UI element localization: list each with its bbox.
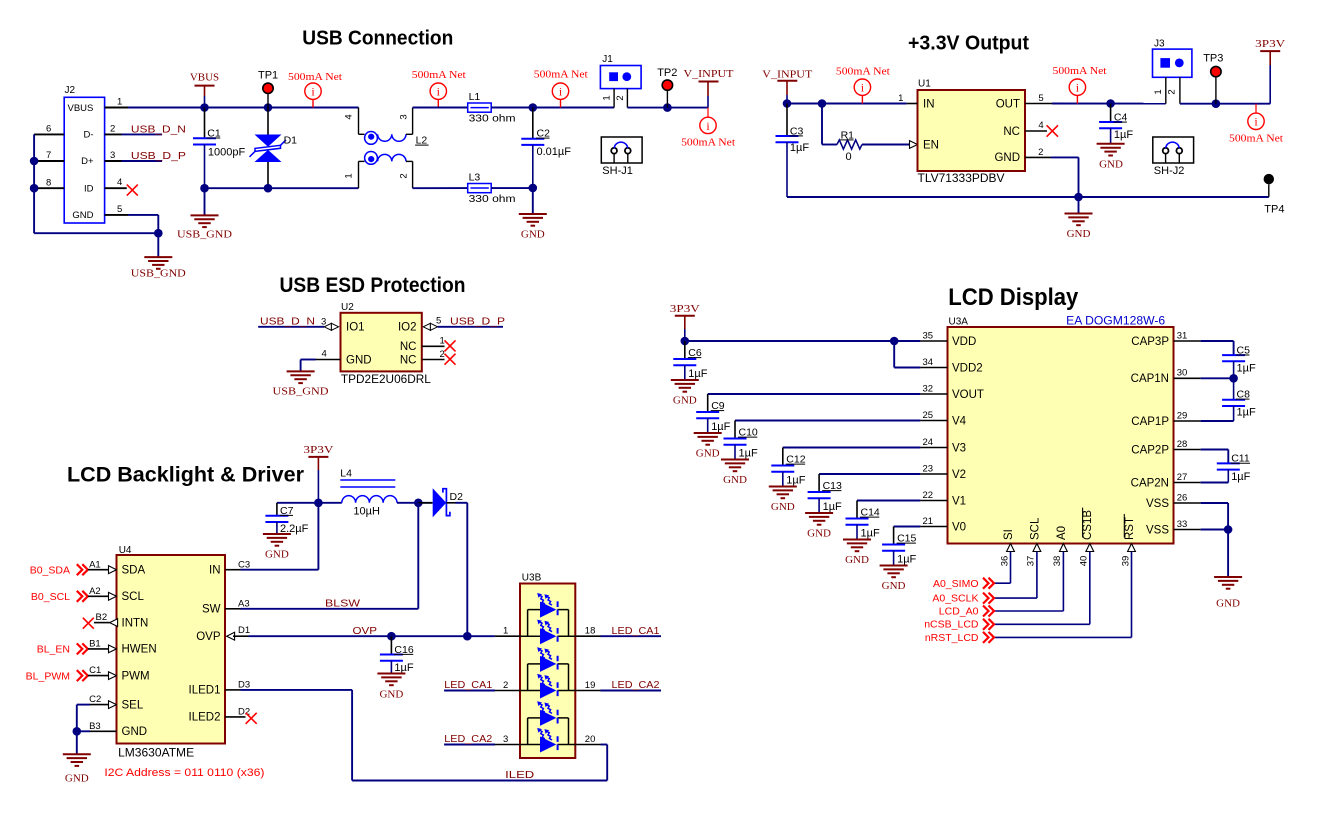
junction dot TP2 — [663, 103, 672, 112]
U4 pin D1 stub OVP — [227, 632, 235, 640]
U3A pin 21 V0 — [920, 526, 947, 528]
junction dot VBUS TP1 — [264, 103, 273, 112]
svg-text:GND: GND — [1067, 228, 1091, 240]
capacitor C11 — [1217, 462, 1240, 464]
header J3 — [1153, 49, 1192, 77]
capacitor C6 — [684, 341, 686, 359]
svg-text:J1: J1 — [602, 54, 613, 65]
svg-text:1µF: 1µF — [861, 528, 880, 540]
wire J1 pin2 to V_INPUT — [627, 107, 708, 109]
J2 pin 6 stub — [34, 133, 64, 135]
svg-text:5: 5 — [117, 204, 122, 215]
svg-text:IN: IN — [923, 99, 935, 111]
U3A pin 34 VDD2 — [920, 367, 947, 369]
svg-text:D3: D3 — [238, 680, 250, 691]
svg-text:VBUS: VBUS — [190, 72, 219, 84]
ground USB_GND at C1 — [204, 188, 206, 215]
LED D2 lower of group 1 — [540, 628, 556, 644]
svg-text:BL_PWM: BL_PWM — [26, 670, 70, 682]
svg-text:29: 29 — [1177, 410, 1188, 421]
svg-text:HWEN: HWEN — [122, 644, 157, 656]
svg-text:GND: GND — [723, 474, 747, 486]
schottky diode D2 — [418, 502, 432, 504]
svg-text:GND: GND — [1099, 159, 1123, 171]
ground GND at C15 — [880, 565, 908, 567]
wire CAP2N to C11 — [1201, 482, 1229, 484]
svg-text:1: 1 — [1153, 89, 1164, 94]
svg-text:SH-J1: SH-J1 — [602, 165, 633, 177]
wire ILED net — [241, 689, 353, 691]
ground GND at C12 — [769, 486, 797, 488]
svg-text:4: 4 — [117, 177, 122, 188]
test point TP2 — [666, 90, 668, 107]
capacitor C3 — [786, 104, 788, 137]
U4 pin B1 stub — [88, 648, 109, 650]
wire L4 to D2 — [397, 502, 432, 504]
svg-text:D-: D- — [83, 130, 93, 141]
svg-text:VDD2: VDD2 — [952, 362, 983, 374]
svg-text:4: 4 — [1038, 120, 1043, 131]
svg-text:BLSW: BLSW — [325, 597, 360, 609]
shunt SH-J1 — [601, 137, 642, 163]
svg-text:31: 31 — [1177, 330, 1188, 341]
ground GND at VSS — [1227, 530, 1229, 578]
svg-text:INTN: INTN — [122, 617, 149, 629]
U3A pin 29 CAP1P — [1174, 420, 1201, 422]
svg-text:RST: RST — [1124, 517, 1136, 540]
svg-text:2: 2 — [110, 124, 115, 135]
svg-text:1µF: 1µF — [394, 662, 413, 674]
net label USB_D_N wire — [122, 133, 163, 135]
svg-text:4: 4 — [322, 349, 327, 360]
svg-text:TP1: TP1 — [258, 70, 278, 82]
LCD module U3A — [948, 327, 1174, 544]
U4 pin C1 stub — [88, 675, 109, 677]
wire CAP3P to C5 — [1201, 340, 1234, 342]
svg-text:NC: NC — [400, 354, 417, 366]
J2 pin 4 stub no-connect — [105, 187, 127, 189]
wire J3 pin2 to 3P3V — [1180, 103, 1270, 105]
svg-text:D1: D1 — [284, 135, 298, 147]
svg-text:GND: GND — [265, 549, 289, 561]
svg-text:3P3V: 3P3V — [303, 444, 333, 456]
wire R1 branch down — [821, 104, 823, 145]
svg-text:TPD2E2U06DRL: TPD2E2U06DRL — [341, 374, 432, 386]
LED array U3B — [520, 584, 575, 759]
svg-text:USB_D_N: USB_D_N — [260, 315, 315, 327]
svg-text:ILED: ILED — [505, 769, 535, 781]
svg-text:1µF: 1µF — [823, 501, 842, 513]
wire CAP1N node — [1201, 377, 1234, 379]
svg-text:I2C Address = 011 0110 (x36): I2C Address = 011 0110 (x36) — [104, 767, 264, 779]
svg-text:U3A: U3A — [949, 316, 969, 327]
svg-text:CAP3P: CAP3P — [1131, 336, 1169, 348]
wire regulator ground rail — [787, 196, 1269, 198]
svg-text:LED_CA1: LED_CA1 — [612, 625, 660, 637]
net info 500mA Net before U1 — [854, 79, 870, 95]
test point TP1 — [267, 94, 269, 108]
svg-text:1000pF: 1000pF — [208, 147, 246, 159]
J2 pin 5 stub — [105, 214, 128, 216]
LED D6 lower of group 3 — [540, 737, 556, 753]
svg-text:3: 3 — [110, 150, 115, 161]
svg-text:3: 3 — [398, 114, 409, 119]
svg-text:VSS: VSS — [1146, 524, 1169, 536]
LED D3 upper of group 2 — [540, 656, 556, 672]
svg-text:A3: A3 — [238, 598, 250, 609]
svg-text:1µF: 1µF — [711, 421, 730, 433]
net info 500mA Net at V_INPUT — [707, 108, 709, 118]
svg-text:4: 4 — [344, 114, 355, 119]
U3A pin 25 V4 — [920, 420, 947, 422]
svg-text:A1: A1 — [89, 559, 101, 570]
svg-text:2: 2 — [440, 349, 445, 360]
wire L2 to L3 — [413, 187, 468, 189]
port nCSB_LCD — [994, 623, 1090, 625]
svg-text:33: 33 — [1177, 519, 1188, 530]
wire C13 to U3A — [819, 473, 920, 475]
svg-text:GND: GND — [845, 554, 869, 566]
wire C12 to U3A — [783, 447, 921, 449]
junction dot C2 bottom — [529, 184, 538, 193]
svg-text:1µF: 1µF — [739, 448, 758, 460]
connector J2 — [64, 97, 104, 223]
svg-text:L3: L3 — [469, 171, 481, 183]
svg-text:27: 27 — [1177, 472, 1188, 483]
wire VSS 26 down — [1201, 502, 1229, 504]
ground GND at C2 — [532, 188, 534, 214]
net info 500mA Net after L1 — [552, 83, 568, 99]
svg-text:38: 38 — [1052, 556, 1063, 567]
svg-text:500mA Net: 500mA Net — [534, 69, 588, 81]
svg-text:26: 26 — [1177, 492, 1188, 503]
U3A pin 22 V1 — [920, 500, 947, 502]
svg-text:GND: GND — [771, 501, 795, 513]
svg-text:2: 2 — [1038, 147, 1043, 158]
svg-text:V0: V0 — [952, 521, 966, 533]
svg-text:5: 5 — [1038, 93, 1043, 104]
net label USB_D_N wire at U2 — [258, 326, 324, 328]
junction dot 3P3V backlight — [314, 499, 323, 508]
svg-text:28: 28 — [1177, 439, 1188, 450]
svg-text:24: 24 — [923, 437, 934, 448]
svg-text:VSS: VSS — [1146, 498, 1169, 510]
svg-text:B1: B1 — [89, 639, 101, 650]
U2 IO1 pin diamond — [324, 323, 331, 330]
svg-text:C1: C1 — [89, 665, 101, 676]
svg-text:IO1: IO1 — [346, 322, 365, 334]
svg-text:1µF: 1µF — [790, 142, 809, 154]
ground GND at C7 — [263, 533, 291, 535]
svg-text:500mA Net: 500mA Net — [288, 71, 342, 83]
svg-text:C3: C3 — [238, 559, 250, 570]
svg-text:L1: L1 — [469, 91, 481, 103]
svg-text:GND: GND — [346, 354, 372, 366]
svg-text:40: 40 — [1079, 556, 1090, 567]
svg-text:+3.3V Output: +3.3V Output — [908, 31, 1029, 54]
U1 pin 2 stub GND — [1025, 156, 1051, 158]
svg-text:U4: U4 — [119, 545, 132, 556]
svg-text:OVP: OVP — [353, 625, 378, 637]
svg-text:SH-J2: SH-J2 — [1154, 165, 1185, 177]
svg-text:1: 1 — [440, 335, 445, 346]
ESD protection U2 — [341, 313, 422, 372]
svg-text:2: 2 — [503, 680, 508, 691]
svg-text:ID: ID — [84, 183, 94, 194]
junction dot BLSW — [414, 499, 423, 508]
capacitor C1 — [204, 108, 206, 139]
svg-text:PWM: PWM — [122, 670, 150, 682]
svg-text:330 ohm: 330 ohm — [469, 112, 516, 124]
capacitor C15 — [893, 527, 895, 545]
wire L1 to C2 node — [491, 107, 614, 109]
junction dot CAP1N — [1229, 374, 1238, 383]
junction dot TP3 — [1212, 99, 1221, 108]
port A0_SIMO — [994, 582, 1011, 584]
junction dot VDD2 branch — [890, 337, 899, 346]
U3A pin 33 VSS — [1174, 529, 1201, 531]
J3 pin 2 stub — [1179, 77, 1181, 103]
wire 3P3V to VDD — [685, 340, 921, 342]
svg-text:B0_SDA: B0_SDA — [30, 565, 70, 577]
U3B pin 2 stub — [495, 690, 520, 692]
wire R1 to U1 EN — [862, 144, 909, 146]
net label LED_CA2 right — [601, 690, 662, 692]
net label USB_D_P wire at U2 — [438, 326, 503, 328]
LED pair group 2 bracket — [520, 690, 540, 692]
port A0_SCLK — [994, 597, 1037, 599]
U3A pin 35 VDD — [920, 340, 947, 342]
svg-text:EA DOGM128W-6: EA DOGM128W-6 — [1066, 315, 1165, 327]
regulator U1 — [918, 90, 1026, 171]
svg-text:36: 36 — [999, 556, 1010, 567]
svg-text:23: 23 — [923, 463, 934, 474]
LED D4 lower of group 2 — [540, 683, 556, 699]
svg-text:1µF: 1µF — [786, 475, 805, 487]
junction dot D1 bottom — [264, 184, 273, 193]
wire 3P3V to C7 — [277, 502, 319, 504]
svg-text:SCL: SCL — [1029, 517, 1041, 540]
svg-text:IO2: IO2 — [398, 322, 417, 334]
ground GND at U4 — [76, 731, 78, 754]
capacitor C5 — [1222, 354, 1245, 356]
svg-text:LCD Backlight & Driver: LCD Backlight & Driver — [67, 463, 304, 486]
svg-text:1µF: 1µF — [1114, 129, 1133, 141]
svg-text:GND: GND — [122, 726, 148, 738]
svg-text:10µH: 10µH — [353, 506, 380, 518]
svg-text:30: 30 — [1177, 368, 1188, 379]
ground USB_GND at U2 — [287, 370, 315, 372]
svg-text:V2: V2 — [952, 469, 966, 481]
svg-text:OVP: OVP — [196, 631, 221, 643]
port LCD_A0 — [994, 610, 1063, 612]
svg-text:VDD: VDD — [952, 336, 976, 348]
svg-text:A2: A2 — [89, 586, 101, 597]
svg-text:GND: GND — [696, 448, 720, 460]
svg-text:L4: L4 — [340, 468, 352, 480]
svg-text:LCD Display: LCD Display — [948, 284, 1079, 311]
svg-text:GND: GND — [72, 210, 93, 221]
svg-text:3P3V: 3P3V — [1255, 38, 1285, 50]
junction dot C2 top — [529, 103, 538, 112]
U4 pin A3 stub SW — [225, 608, 241, 610]
svg-text:A0_SIMO: A0_SIMO — [933, 578, 979, 590]
junction dot C16 — [387, 632, 396, 641]
common mode choke L2 — [358, 108, 360, 135]
wire U4 IN to 3P3V — [241, 569, 319, 571]
svg-text:37: 37 — [1026, 556, 1037, 567]
svg-text:J2: J2 — [65, 85, 76, 96]
svg-text:V1: V1 — [952, 495, 966, 507]
ground GND at rail — [1078, 197, 1080, 214]
wire SEL to ground — [77, 704, 90, 706]
svg-text:B0_SCL: B0_SCL — [31, 591, 70, 603]
svg-text:25: 25 — [923, 410, 934, 421]
svg-text:CAP2P: CAP2P — [1131, 444, 1169, 456]
U4 pin D3 stub ILED1 — [225, 689, 241, 691]
svg-text:OUT: OUT — [996, 99, 1020, 111]
junction dot VSS — [1224, 525, 1233, 534]
svg-text:V4: V4 — [952, 415, 967, 427]
U3A pin 27 CAP2N — [1174, 482, 1201, 484]
svg-text:BL_EN: BL_EN — [37, 644, 70, 656]
svg-text:SDA: SDA — [122, 565, 146, 577]
U2 pin 4 GND stub — [316, 359, 341, 361]
svg-text:nRST_LCD: nRST_LCD — [925, 632, 979, 644]
svg-text:1µF: 1µF — [688, 368, 707, 380]
wire D2 to OVP node — [446, 502, 455, 504]
svg-text:LED_CA1: LED_CA1 — [444, 679, 492, 691]
capacitor C9 — [707, 394, 709, 412]
svg-text:CAP1N: CAP1N — [1131, 373, 1169, 385]
svg-text:USB_GND: USB_GND — [131, 268, 186, 280]
J2 pin 3 stub — [105, 160, 122, 162]
U3A pin 23 V2 — [920, 473, 947, 475]
svg-text:USB ESD Protection: USB ESD Protection — [280, 274, 466, 297]
svg-text:ILED1: ILED1 — [189, 685, 221, 697]
net info 500mA Net at VBUS — [305, 83, 321, 99]
net label LED_CA1 left wire — [444, 690, 495, 692]
svg-text:TP3: TP3 — [1203, 52, 1223, 64]
U4 pin C3 stub IN — [225, 569, 241, 571]
wire BLSW — [241, 608, 419, 610]
U2 pin 2 NC no-connect — [422, 359, 445, 361]
U1 pin 1 stub — [907, 103, 918, 105]
svg-text:500mA Net: 500mA Net — [836, 66, 890, 78]
svg-text:C2: C2 — [89, 694, 101, 705]
wire U1 OUT net — [1052, 103, 1166, 105]
resistor R1 — [837, 140, 862, 149]
wire J2 pin5 to ground junction — [128, 214, 158, 216]
svg-text:TP2: TP2 — [657, 67, 677, 79]
U3A pin 24 V3 — [920, 447, 947, 449]
wire U4 GND to ground — [77, 730, 90, 732]
svg-text:2: 2 — [398, 173, 409, 178]
junction dot R1 branch — [818, 99, 827, 108]
svg-text:GND: GND — [1216, 598, 1240, 610]
wire J2 shield rail — [33, 134, 35, 233]
junction dot rail GND — [1074, 193, 1083, 202]
svg-text:0.01µF: 0.01µF — [537, 146, 572, 158]
svg-text:B2: B2 — [96, 612, 108, 623]
wire pin 20 to ILED — [601, 744, 608, 746]
svg-text:1µF: 1µF — [1237, 407, 1256, 419]
junction dot C6 — [681, 337, 690, 346]
svg-text:GND: GND — [65, 773, 89, 785]
U3A pin 31 CAP3P — [1174, 340, 1201, 342]
wire C9 to U3A — [708, 393, 921, 395]
svg-text:3: 3 — [503, 734, 508, 745]
junction dot C3 — [783, 99, 792, 108]
capacitor C8 — [1233, 378, 1235, 400]
wire CAP1P to C8 — [1201, 420, 1234, 422]
U3B pin 19 stub — [575, 690, 600, 692]
svg-text:500mA Net: 500mA Net — [412, 69, 466, 81]
svg-text:NC: NC — [1003, 126, 1020, 138]
svg-text:22: 22 — [923, 490, 934, 501]
net info 500mA Net at 3P3V — [1255, 104, 1257, 114]
svg-text:U2: U2 — [341, 302, 354, 313]
svg-text:D+: D+ — [81, 156, 94, 167]
svg-text:A0: A0 — [1056, 526, 1068, 540]
junction dot VBUS C1 — [200, 103, 209, 112]
ground GND at C6 — [671, 379, 699, 381]
capacitor C16 — [390, 636, 392, 654]
svg-text:SEL: SEL — [122, 699, 144, 711]
ground GND at C16 — [377, 673, 405, 675]
junction dot U4 ground — [73, 727, 82, 736]
wire C14 to U3A — [857, 500, 920, 502]
svg-text:TP4: TP4 — [1264, 203, 1284, 215]
J2 pin 7 stub — [34, 160, 64, 162]
svg-text:V_INPUT: V_INPUT — [684, 68, 734, 80]
junction dot ground rail — [154, 229, 163, 238]
net info 500mA Net after L2 — [430, 83, 446, 99]
wire V_INPUT to U1 IN — [787, 103, 907, 105]
svg-text:GND: GND — [882, 580, 906, 592]
net label LED_CA1 right — [601, 635, 662, 637]
svg-text:J3: J3 — [1154, 39, 1165, 50]
svg-text:U3B: U3B — [522, 573, 542, 584]
J1 pin 2 stub — [626, 89, 628, 108]
svg-text:V3: V3 — [952, 442, 966, 454]
svg-text:7: 7 — [46, 150, 51, 161]
svg-text:2: 2 — [615, 95, 626, 100]
net label USB_D_P wire — [122, 160, 163, 162]
ground GND at C9 — [694, 432, 722, 434]
svg-text:LED_CA2: LED_CA2 — [612, 679, 660, 691]
shunt SH-J2 — [1153, 137, 1194, 163]
svg-text:2: 2 — [1167, 89, 1178, 94]
U3B pin 18 stub — [575, 635, 600, 637]
wire VBUS net top — [128, 107, 359, 109]
svg-text:A0_SCLK: A0_SCLK — [932, 592, 978, 604]
U3B pin 3 stub — [495, 744, 520, 746]
svg-text:34: 34 — [923, 357, 934, 368]
ground USB_GND at J2 — [157, 233, 159, 257]
svg-text:500mA Net: 500mA Net — [681, 137, 735, 149]
svg-text:1: 1 — [898, 93, 903, 104]
svg-text:3P3V: 3P3V — [670, 303, 700, 315]
svg-text:500mA Net: 500mA Net — [1053, 65, 1107, 77]
svg-text:IN: IN — [209, 565, 221, 577]
wire C10 to U3A — [735, 420, 920, 422]
svg-text:SCL: SCL — [122, 591, 145, 603]
svg-text:USB_GND: USB_GND — [273, 386, 329, 398]
wire OVP net — [249, 635, 495, 637]
svg-text:5: 5 — [436, 315, 441, 326]
wire VDD2 branch — [893, 341, 895, 368]
